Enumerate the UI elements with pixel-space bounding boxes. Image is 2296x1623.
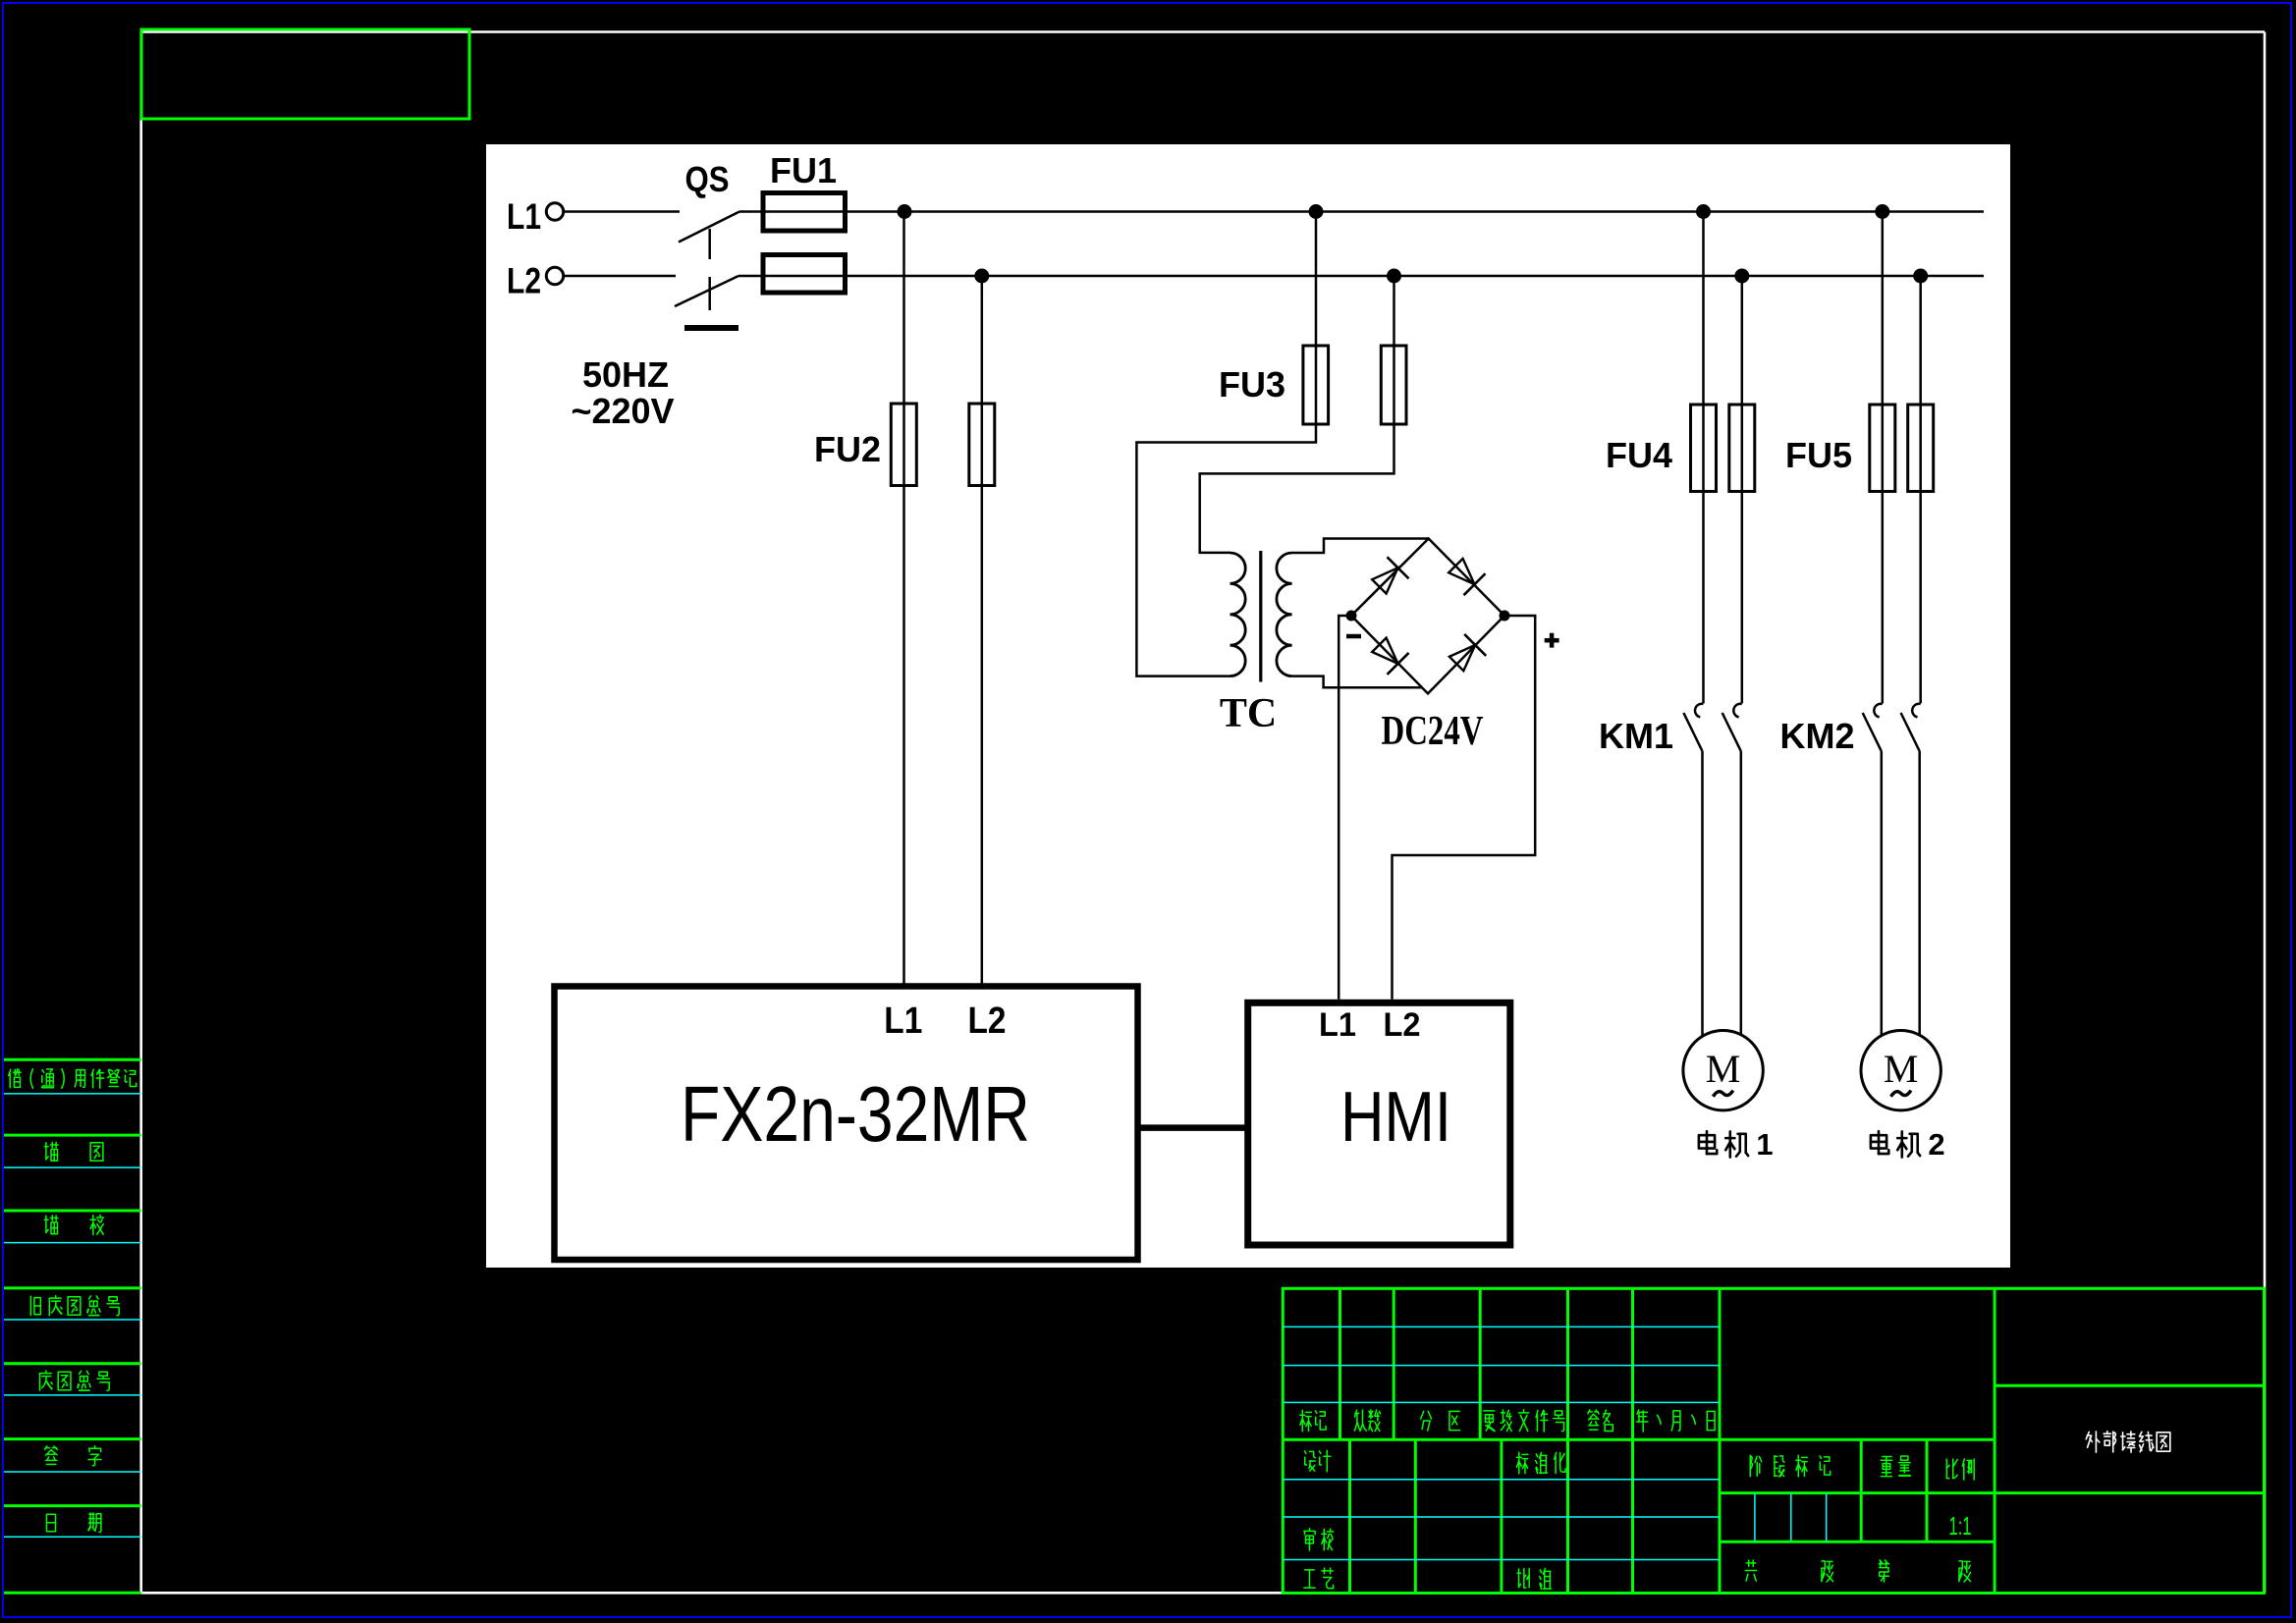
title label 批准	[1517, 1568, 1551, 1589]
node junction C	[1696, 204, 1711, 219]
fuse FU5b	[1908, 405, 1934, 492]
node junction D	[1875, 204, 1889, 219]
wire FU3 branch L1	[1136, 212, 1316, 676]
title label 分区	[1421, 1411, 1460, 1431]
node junction F	[1387, 269, 1401, 284]
wire FU3 branch L2	[1200, 276, 1394, 553]
node bridge positive	[1500, 611, 1510, 622]
wire DC positive to HMI	[1393, 616, 1536, 1000]
title label 工艺	[1304, 1568, 1334, 1589]
fuse FU2 pole 1	[891, 404, 916, 486]
wire FU4b drop	[1741, 276, 1744, 703]
title label 年、月、日	[1636, 1410, 1715, 1432]
svg-text:KM2: KM2	[1779, 716, 1854, 756]
svg-text:L2: L2	[1384, 1006, 1421, 1044]
title block vertical rules (green)	[1340, 1288, 1995, 1593]
svg-text:M: M	[1706, 1047, 1741, 1091]
sidebar label 签字	[45, 1446, 101, 1466]
svg-text:FU2: FU2	[814, 429, 881, 469]
sidebar label 日期	[47, 1513, 101, 1532]
drawing canvas (white)	[486, 144, 2010, 1268]
svg-text:FU4: FU4	[1606, 435, 1672, 475]
node junction A	[898, 204, 912, 219]
wire FU4b to motor	[1740, 751, 1743, 1040]
wire through FU2	[904, 404, 982, 486]
svg-text:FU3: FU3	[1219, 364, 1285, 405]
wire FU4a drop	[1702, 212, 1705, 704]
contact FU4b blade	[1722, 713, 1741, 751]
contact FU5b blade	[1901, 713, 1920, 751]
svg-text:2: 2	[1928, 1127, 1944, 1162]
svg-text:FX2n-32MR: FX2n-32MR	[681, 1070, 1030, 1158]
left sidebar ruled lines (cyan)	[4, 1094, 141, 1537]
drawing title 外部接线图	[2086, 1432, 2170, 1452]
node junction G	[1734, 269, 1749, 284]
HMI box	[1248, 1002, 1510, 1245]
transformer TC secondary winding	[1277, 553, 1292, 676]
node bridge negative	[1346, 611, 1357, 622]
fuse FU4a	[1691, 405, 1717, 492]
wire FU5a to motor	[1881, 751, 1884, 1040]
fuse FU1 pole 2	[763, 255, 846, 294]
diode D4 (bottom-right arm)	[1449, 634, 1486, 671]
node junction E	[974, 269, 989, 284]
motor M1 tilde	[1713, 1091, 1732, 1097]
title label 阶段标记	[1750, 1455, 1830, 1477]
motor M2 circle	[1861, 1031, 1941, 1110]
sidebar label 借（通）用件登记	[9, 1069, 137, 1089]
node junction H	[1913, 269, 1928, 284]
svg-text:L1: L1	[1319, 1006, 1356, 1044]
title block thin rules (cyan)	[1283, 1326, 1826, 1559]
label plus	[1545, 633, 1559, 648]
svg-text:L2: L2	[507, 261, 541, 301]
sidebar label 底图总号	[39, 1371, 109, 1390]
switch QS base bar	[684, 325, 738, 331]
fuse FU4b	[1729, 405, 1755, 492]
sidebar label 旧底图总号	[30, 1296, 119, 1316]
title label 标准化	[1516, 1452, 1565, 1474]
title label 审核	[1304, 1529, 1334, 1550]
svg-text:1: 1	[1756, 1127, 1773, 1162]
wire L2 lead	[564, 275, 676, 278]
wire FU4a to motor	[1701, 751, 1704, 1040]
title label 重量	[1881, 1456, 1910, 1477]
contact FU4a hook	[1695, 704, 1703, 718]
title block outer frame	[1283, 1288, 2264, 1593]
wire L1 bus	[739, 210, 1984, 213]
switch QS link bar	[708, 229, 711, 310]
svg-text:TC: TC	[1220, 691, 1277, 736]
wire DC negative to HMI	[1339, 616, 1351, 1000]
wire FU5b to motor	[1918, 751, 1921, 1040]
title label 设计	[1304, 1450, 1330, 1472]
svg-text:L2: L2	[968, 1001, 1007, 1042]
diode D2 (top-right arm)	[1449, 559, 1485, 595]
wire FU2 branch L2	[981, 276, 984, 987]
wire FU5b drop	[1919, 276, 1922, 703]
svg-text:50HZ: 50HZ	[582, 354, 669, 395]
title label 标记	[1300, 1410, 1326, 1432]
wire FU2 branch L1	[902, 212, 905, 987]
fuse FU3 pole 1	[1303, 346, 1329, 424]
fuse FU1 pole 1	[763, 193, 846, 232]
svg-text:L1: L1	[507, 196, 541, 237]
svg-text:1:1: 1:1	[1949, 1511, 1972, 1541]
title label 比例	[1946, 1459, 1974, 1480]
svg-text:KM1: KM1	[1599, 716, 1673, 756]
sidebar label 描图	[44, 1142, 103, 1161]
motor M2 tilde	[1891, 1091, 1911, 1097]
contact FU4a blade	[1683, 713, 1702, 751]
transformer TC core	[1259, 551, 1262, 682]
fuse FU5a	[1870, 405, 1895, 492]
switch QS pole 1 blade	[679, 212, 739, 243]
wire secondary bottom lead	[1292, 676, 1422, 688]
node L1 terminal	[546, 203, 563, 220]
wire FU5a drop	[1882, 212, 1885, 704]
diode D1 (top-left arm)	[1372, 557, 1408, 593]
label minus	[1346, 634, 1361, 639]
title label 共张第张	[1745, 1560, 1970, 1582]
svg-text:M: M	[1884, 1047, 1919, 1091]
label 电机2	[1871, 1127, 1945, 1162]
svg-text:DC24V: DC24V	[1382, 709, 1484, 754]
switch QS pole 2 blade	[675, 276, 738, 306]
node L2 terminal	[546, 267, 563, 284]
contact FU5a blade	[1863, 713, 1882, 751]
sidebar label 描校	[44, 1215, 103, 1234]
wire L1 lead	[564, 210, 680, 213]
contact FU5a hook	[1874, 704, 1882, 718]
label 电机1	[1699, 1127, 1774, 1162]
header title box (green)	[141, 29, 469, 119]
svg-text:FU5: FU5	[1785, 435, 1852, 475]
PLC box FX2n-32MR	[555, 987, 1138, 1261]
contact FU5b hook	[1912, 704, 1920, 718]
title label 处数	[1354, 1410, 1380, 1432]
motor M1 circle	[1683, 1031, 1763, 1110]
wire through FU3	[1316, 346, 1394, 424]
diode D3 (bottom-left arm)	[1372, 638, 1408, 675]
node junction B	[1309, 204, 1324, 219]
title label 签名	[1588, 1410, 1613, 1432]
svg-text:HMI: HMI	[1340, 1078, 1451, 1157]
contact FU4b hook	[1733, 704, 1741, 718]
bridge rectifier ring	[1351, 539, 1504, 694]
wire L2 bus	[738, 275, 1984, 278]
title block horizontal rules (green)	[1283, 1385, 2264, 1542]
svg-text:FU1: FU1	[770, 150, 837, 190]
svg-text:L1: L1	[884, 1001, 922, 1042]
svg-text:QS: QS	[685, 159, 730, 199]
fuse FU3 pole 2	[1381, 346, 1406, 424]
wire secondary top lead	[1292, 539, 1429, 554]
left sidebar ruled lines (green)	[4, 1059, 141, 1593]
svg-text:~220V: ~220V	[571, 391, 674, 431]
title label 更改文件号	[1484, 1410, 1564, 1432]
transformer TC primary winding	[1230, 553, 1246, 676]
fuse FU2 pole 2	[969, 404, 995, 486]
wire PLC-HMI link	[1138, 1124, 1248, 1131]
